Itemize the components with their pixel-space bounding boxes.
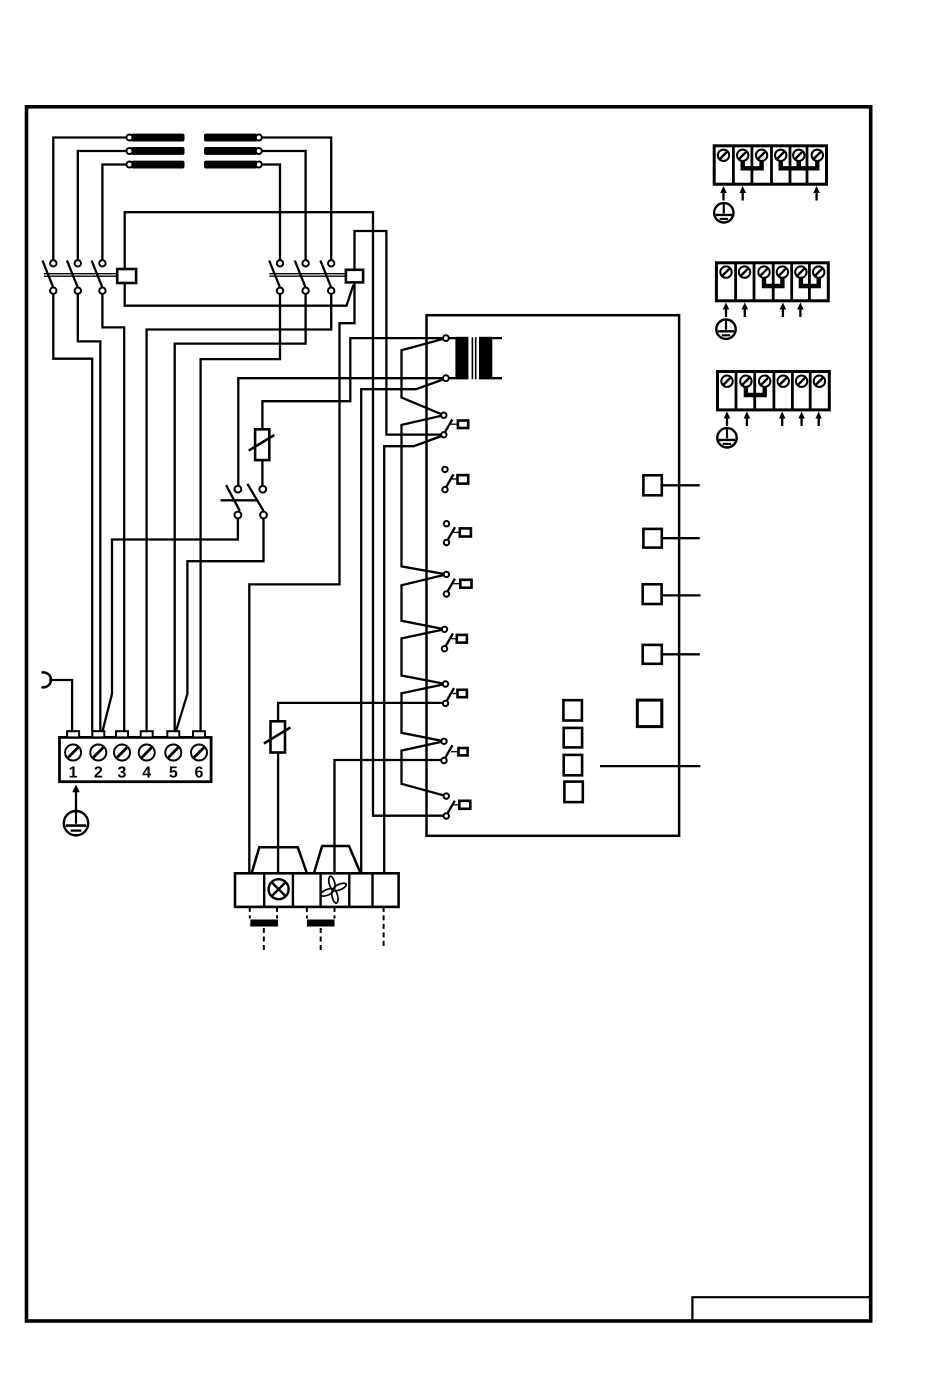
wire contactor K1 pole 3 to terminal 3	[102, 294, 124, 731]
switch S8	[444, 793, 471, 818]
terminal X1 entry tab 3	[116, 731, 128, 737]
strip cell dividers	[264, 873, 372, 907]
lamp fan strip body	[235, 873, 399, 907]
connector square CN7	[564, 728, 582, 748]
terminal X1 entry tab 1	[67, 731, 79, 737]
terminal X1 entry tab 5	[167, 731, 179, 737]
wire fuse F1 to switch S9 right pole	[261, 460, 263, 486]
X3 arrow 4	[780, 303, 787, 318]
X3 jumper link 3-4	[764, 277, 782, 287]
wire transformer secondary bottom to switch S9 left pole	[238, 378, 443, 486]
heating element E4	[204, 134, 258, 142]
connector square CN1	[643, 475, 661, 495]
wire E6 to contactor K2 pole 1	[259, 165, 280, 261]
terminal circle E5	[256, 148, 262, 154]
terminal circle E2	[127, 148, 133, 154]
transformer T1	[443, 335, 502, 381]
terminal block X1 body	[60, 737, 212, 781]
terminal circle E6	[256, 162, 262, 168]
connector square CN5	[637, 700, 662, 727]
X3 arrow 5	[797, 303, 804, 318]
terminal X1 entry tab 6	[193, 731, 205, 737]
contactor K2 pole 1 contact	[269, 260, 283, 294]
X4 screw 5	[796, 376, 807, 387]
wire plug P1 to terminal 1	[49, 680, 72, 731]
wire transformer secondary top to fuse F1	[262, 338, 443, 429]
switch S4	[444, 572, 472, 597]
lamp H1	[269, 879, 289, 899]
wire contactor K2 pole 1 to terminal 6	[201, 294, 280, 731]
cable hood over fan cells	[314, 846, 361, 873]
svg-text:5: 5	[169, 765, 178, 782]
switch S3	[444, 521, 471, 545]
svg-text:4: 4	[142, 765, 151, 782]
contactor K2 coil box	[346, 270, 363, 283]
dashed leads fan group	[307, 907, 335, 919]
switch S1	[441, 413, 468, 438]
wire CN4 stub	[662, 653, 700, 655]
X3 screw 4	[777, 266, 788, 277]
terminal X1 entry tab 2	[92, 731, 104, 737]
X2 screw 2	[737, 150, 748, 161]
X3 arrow 1	[723, 303, 730, 318]
dashed lead cell 6	[383, 907, 385, 949]
X3 screw 2	[739, 266, 750, 277]
X4 screw 2	[740, 376, 751, 387]
X3 screw 5	[795, 266, 806, 277]
wire E1 to contactor K1 pole 1	[53, 138, 129, 261]
title block	[692, 1297, 869, 1320]
terminal block X4 body	[718, 372, 830, 410]
X2 screw 6	[812, 150, 823, 161]
wire E2 to contactor K1 pole 2	[78, 151, 129, 260]
connector square CN3	[643, 584, 662, 604]
svg-text:1: 1	[69, 765, 78, 782]
X3 cell dividers	[736, 263, 810, 301]
heating element E3	[131, 161, 185, 169]
fan M1	[320, 876, 348, 904]
wire transformer secondary bottom to strip via left column	[361, 379, 443, 873]
wire contactor K1 pole 1 to terminal 2	[53, 294, 92, 731]
wire switch S7 bottom to fan cell	[335, 760, 442, 874]
X4 arrow 6	[815, 412, 821, 427]
X3 screw 6	[813, 266, 824, 277]
contactor K1 pole 3 contact	[92, 260, 106, 294]
svg-text:6: 6	[195, 765, 204, 782]
fan heater bar	[307, 920, 335, 927]
plug hook P1	[42, 672, 51, 687]
dashed leads lamp group	[250, 907, 277, 919]
X4 arrow 2	[744, 412, 751, 427]
terminal circle E4	[256, 135, 262, 141]
protective earth symbol X4	[717, 428, 736, 447]
heating element E1	[131, 134, 185, 142]
X4 arrow 1	[724, 412, 731, 427]
contactor K1 pole 1 contact	[43, 260, 57, 294]
wire switch S9 right pole to terminal 5	[176, 518, 264, 731]
terminal block X2 body	[714, 146, 826, 184]
terminal X1 screw 2	[90, 745, 106, 761]
terminal block X3 body	[716, 263, 828, 301]
svg-text:2: 2	[94, 765, 103, 782]
connector square CN9	[564, 782, 582, 803]
protective earth symbol X3	[716, 320, 735, 339]
wire output stub	[600, 765, 700, 767]
wire CN3 stub	[662, 594, 701, 596]
contactor K2 pole 3 contact	[320, 260, 334, 294]
wire coil K2 top to switch S1 bottom	[355, 231, 442, 435]
terminal X1 screw 4	[139, 745, 155, 761]
switch S2	[442, 467, 468, 493]
X2 arrow 2	[739, 186, 746, 201]
X2 screw 3	[756, 150, 767, 161]
X2 jumper link 2-3	[743, 159, 762, 169]
X4 jumper link 2-3	[746, 386, 765, 396]
switch S9 right pole contact	[247, 484, 267, 519]
X3 jumper link 5-6	[801, 277, 819, 287]
svg-text:3: 3	[118, 765, 127, 782]
X4 arrow 4	[779, 412, 786, 427]
X3 screw 3	[758, 266, 769, 277]
X2 screw 4	[775, 150, 786, 161]
wire control loop bottom from coil K1 to coil K2	[125, 283, 354, 306]
X4 screw 4	[778, 376, 789, 387]
X4 arrow 5	[798, 412, 805, 427]
X2 cell dividers	[733, 146, 807, 184]
control board U1 outline	[427, 315, 680, 836]
heating element E2	[131, 147, 185, 155]
wire contactor K1 pole 2 to terminal 2	[78, 294, 101, 731]
fuse F2	[264, 721, 291, 752]
X2 screw 5	[793, 150, 804, 161]
contactor K2 linkage	[269, 274, 346, 277]
connector square CN8	[564, 755, 582, 775]
X2 arrow 1	[720, 186, 727, 201]
switch S7	[441, 739, 467, 764]
switch S9 linkage	[221, 499, 258, 501]
switch S6	[443, 681, 467, 706]
connector square CN2	[643, 529, 661, 548]
terminal X1 screw 5	[165, 745, 181, 761]
dashed lead below fan bar	[320, 928, 322, 950]
X4 screw 6	[814, 376, 825, 387]
lamp heater bar	[250, 920, 278, 927]
X3 arrow 2	[742, 303, 749, 318]
wire CN2 stub	[662, 537, 700, 539]
contactor K1 linkage	[44, 274, 117, 277]
X2 screw 1	[718, 150, 729, 161]
wire E3 to contactor K1 pole 3	[102, 165, 129, 261]
switch S5	[442, 627, 467, 652]
wire coil K2 bottom to lamp strip cell 1	[249, 282, 354, 873]
terminal X1 screw 1	[65, 745, 81, 761]
X3 screw 1	[720, 266, 731, 277]
wire fuse F2 to switch S6 bottom	[278, 703, 443, 721]
wire E4 to contactor K2 pole 3	[259, 138, 331, 261]
wire contactor K2 pole 3 to terminal 4	[147, 294, 332, 731]
X2 arrow 6	[813, 186, 820, 201]
cable hood over lamp cells	[252, 847, 307, 873]
terminal X1 screw 6	[191, 745, 207, 761]
contactor K1 pole 2 contact	[67, 260, 81, 294]
terminal X1 screw 3	[114, 745, 130, 761]
protective earth symbol X2	[714, 203, 733, 222]
terminal circle E1	[127, 135, 133, 141]
ground arrow under X1	[72, 785, 80, 811]
terminal X1 entry tab 4	[141, 731, 153, 737]
X2 jumper link 4-5	[781, 159, 799, 169]
contactor K1 coil box	[117, 269, 136, 283]
heating element E6	[204, 161, 258, 169]
protective earth symbol under X1	[64, 811, 88, 835]
switch S9 left pole contact	[226, 485, 241, 518]
dashed lead below lamp bar	[263, 928, 265, 950]
X4 screw 1	[721, 376, 732, 387]
wire switch S1 bottom to strip cell 6	[384, 436, 441, 874]
wire E5 to contactor K2 pole 2	[259, 151, 306, 260]
heating element E5	[204, 147, 258, 155]
wire fuse F2 to lamp cell	[277, 753, 279, 874]
zigzag bus wire transformer to switch tops	[402, 339, 447, 796]
connector square CN4	[643, 645, 662, 664]
connector square CN6	[563, 700, 582, 720]
terminal circle E3	[127, 162, 133, 168]
wire contactor K2 pole 2 to terminal 5	[175, 294, 306, 731]
X2 jumper link 5-6	[799, 159, 818, 169]
contactor K2 pole 2 contact	[295, 260, 309, 294]
wire CN1 stub	[662, 484, 700, 486]
wire control loop top and right to switch S8	[125, 212, 443, 816]
wire switch S9 left pole to terminal 2	[103, 518, 238, 731]
X4 screw 3	[759, 376, 770, 387]
X4 cell dividers	[736, 372, 810, 410]
fuse F1	[249, 429, 275, 460]
